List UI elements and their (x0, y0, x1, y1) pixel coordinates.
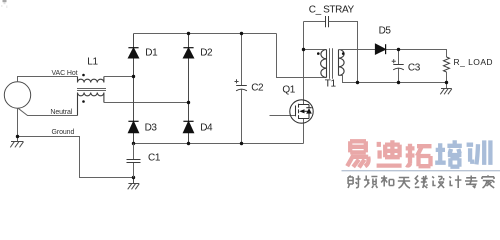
Q1 substrate arrow (299, 109, 304, 113)
char 频 (364, 176, 378, 189)
svg-text:Neutral: Neutral (50, 109, 72, 116)
node drain / primary / C_STRAY (302, 48, 305, 51)
capacitor C_STRAY plates (326, 16, 329, 27)
node bottom rail / C2 (240, 142, 243, 145)
watermark big char 易 (347, 141, 368, 167)
capacitor C_STRAY left wire (304, 21, 326, 23)
capacitor C2 plus sign (235, 79, 239, 83)
node top rail / D2 (187, 32, 190, 35)
wire secondary top to D5 (339, 49, 376, 51)
inductor L1 bottom winding (78, 93, 104, 116)
node L1 bottom / D2 branch (187, 101, 190, 104)
watermark big char 迪 (377, 140, 402, 165)
svg-text:L1: L1 (87, 57, 98, 68)
AC source V1 circle (4, 82, 30, 108)
node bottom rail / D4 (187, 142, 190, 145)
svg-text:Q1: Q1 (282, 84, 295, 95)
node return / C_STRAY (356, 81, 359, 84)
char 射 (348, 176, 361, 189)
svg-text:VAC Hot: VAC Hot (52, 70, 78, 77)
wire source bottom to ground node (17, 108, 19, 141)
ground symbol below C1 (128, 178, 140, 190)
phase dot T1 primary (317, 52, 320, 55)
junction node dots (16, 32, 448, 179)
Q1 body diode triangle (306, 108, 312, 114)
wire secondary bottom to output return (339, 76, 447, 83)
svg-text:D3: D3 (145, 123, 158, 134)
svg-text:C2: C2 (251, 83, 264, 94)
inductor L1 core lines (77, 89, 106, 91)
capacitor C1 leads (133, 144, 135, 178)
diode D2 (183, 48, 193, 58)
capacitor C3 plus sign (392, 59, 396, 63)
wire bridge branch D2-D4 (188, 34, 190, 144)
inductor L1 common-mode choke top winding (78, 77, 104, 83)
svg-text:D1: D1 (145, 48, 158, 59)
svg-text:C_ STRAY: C_ STRAY (309, 5, 355, 16)
corner smudge artifact (1, 0, 8, 8)
Q1 body diode (306, 105, 311, 119)
watermark big char 训 (467, 140, 491, 165)
node D5 out / C3 top (397, 48, 400, 51)
char 设 (432, 177, 444, 189)
diode D3 (128, 121, 138, 132)
wire L1 bottom to bridge node B (104, 102, 189, 104)
node L1 top / D1 branch (132, 75, 135, 78)
wire L1 top to bridge node A (104, 76, 134, 78)
phase dot T1 secondary (342, 52, 345, 55)
char 和 (381, 176, 394, 187)
char 计 (449, 176, 461, 189)
node bottom rail / D3 (132, 142, 135, 145)
node ground wire / C1 bottom (132, 176, 135, 179)
transistor Q1 gate stub wire (270, 115, 296, 117)
ground symbol below source (10, 142, 23, 148)
capacitor C_STRAY right wire down to secondary return (329, 22, 358, 83)
svg-text:D4: D4 (200, 123, 213, 134)
transformer T1 core lines (330, 48, 333, 78)
capacitor C2 top lead (241, 34, 243, 86)
capacitor C2 plates (236, 86, 247, 91)
diode D1 (128, 48, 138, 58)
wire Neutral from source bottom to L1 (18, 108, 78, 115)
capacitor C1 plates (127, 160, 141, 163)
char 线 (415, 176, 428, 189)
wire bottom DC rail (134, 143, 304, 145)
capacitor C3 top lead (398, 50, 400, 65)
wire primary top from drain node (304, 49, 327, 51)
Q1 drain/source internal links (299, 105, 310, 119)
wire bridge branch D1-D3 (133, 34, 135, 144)
ground symbol below R_LOAD (440, 89, 452, 95)
transformer T1 secondary winding (339, 50, 345, 76)
node source ground junction (16, 135, 19, 138)
svg-text:R_ LOAD: R_ LOAD (454, 57, 494, 67)
watermark big char 培 (435, 140, 462, 167)
svg-text:C1: C1 (148, 152, 161, 163)
capacitor C2 bottom lead (241, 90, 243, 144)
node top rail / C2 (240, 32, 243, 35)
wire top DC rail (134, 33, 277, 35)
svg-text:D5: D5 (379, 26, 392, 37)
svg-text:D2: D2 (200, 48, 213, 59)
svg-text:T1: T1 (325, 79, 337, 90)
watermark separator line (342, 170, 500, 172)
phase dot L1 top (82, 74, 85, 77)
watermark big char 拓 (406, 144, 432, 166)
transistor Q1 MOSFET body (290, 100, 313, 123)
wire Q1 drain vertical to C_STRAY level (303, 22, 305, 105)
char 家 (482, 175, 495, 188)
svg-text:C3: C3 (408, 62, 421, 73)
wire VAC Hot from source top to L1 (18, 77, 78, 82)
char 专 (465, 176, 477, 189)
wire top rail drop to primary bottom (277, 34, 327, 78)
node return / C3 bottom (397, 81, 400, 84)
char 天 (398, 178, 410, 189)
phase dot L1 bottom (82, 100, 85, 103)
wire Ground net from node to C1 bottom (18, 137, 134, 178)
node return / R_LOAD bottom (445, 81, 448, 84)
diode D5 (376, 44, 386, 54)
transformer T1 primary winding (321, 50, 327, 78)
wire D5 cathode to load corner (386, 50, 447, 58)
capacitor C3 plates (393, 65, 404, 70)
Q1 channel segments (298, 104, 300, 119)
resistor R_LOAD bottom lead to ground (446, 72, 448, 89)
transistor Q1 source lead to bottom rail (303, 119, 305, 144)
diode D4 (183, 121, 193, 132)
capacitor C3 bottom lead (398, 69, 400, 83)
svg-text:Ground: Ground (52, 129, 75, 136)
watermark small text 射频和天线设计专家 (348, 175, 494, 188)
Q1 gate bar (295, 106, 297, 117)
resistor R_LOAD zigzag (444, 57, 450, 72)
